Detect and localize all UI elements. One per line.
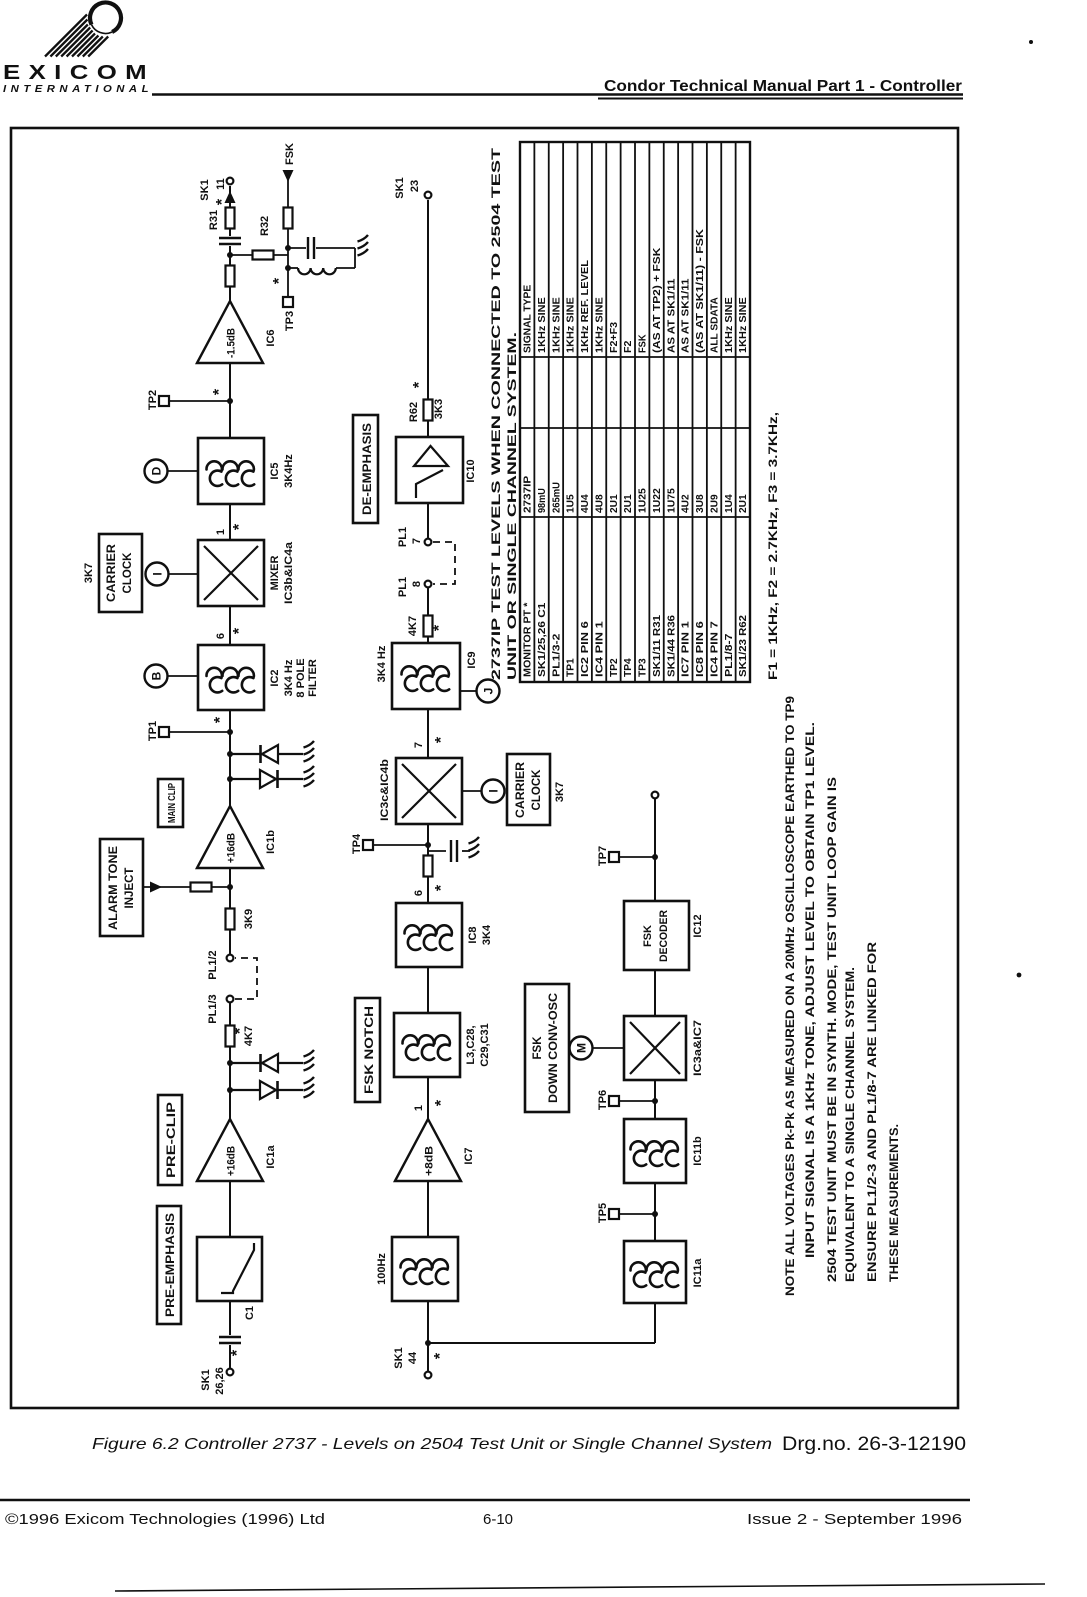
label box PRE-EMPHASIS <box>157 1206 181 1324</box>
clip diode D4 to ground <box>227 741 314 763</box>
svg-text:IC6: IC6 <box>265 329 277 346</box>
svg-text:PL1: PL1 <box>397 527 409 547</box>
node B off-page <box>145 665 168 688</box>
node TP6 junction <box>652 1098 658 1104</box>
header rule <box>152 93 963 96</box>
svg-text:TP6: TP6 <box>597 1090 609 1110</box>
svg-text:2U1: 2U1 <box>622 494 634 513</box>
svg-text:8: 8 <box>411 581 423 587</box>
node TP1 junction <box>227 729 233 735</box>
svg-text:AS AT SK1/11: AS AT SK1/11 <box>680 278 692 353</box>
resistor 4K7 input <box>226 1026 235 1047</box>
node I carrier clock <box>146 563 169 586</box>
test point TP4 <box>351 833 428 854</box>
node I2 carrier clock <box>482 780 505 803</box>
svg-text:INPUT SIGNAL IS A 1KHz TONE, A: INPUT SIGNAL IS A 1KHz TONE, ADJUST LEVE… <box>803 722 817 1258</box>
svg-text:*: * <box>212 716 229 723</box>
svg-text:I: I <box>487 789 501 792</box>
label table title <box>491 148 519 680</box>
svg-text:PL1/8-7: PL1/8-7 <box>723 633 735 677</box>
svg-text:MIXER: MIXER <box>269 556 281 591</box>
node chain2 branch junction <box>425 1340 431 1346</box>
svg-text:+16dB: +16dB <box>226 833 238 863</box>
wire dashed link PL1/8-PL1/7 <box>433 542 455 584</box>
svg-text:TP2: TP2 <box>608 658 620 677</box>
fsk decoder block IC12 <box>624 901 689 970</box>
svg-text:F2+F3: F2+F3 <box>608 322 620 353</box>
svg-text:FSK NOTCH: FSK NOTCH <box>364 1006 376 1094</box>
header title underline <box>598 98 963 100</box>
svg-text:IC2: IC2 <box>269 669 281 686</box>
scan artifact line <box>115 1584 1045 1591</box>
wire chain2 output segment <box>427 200 429 540</box>
node D off-page <box>145 460 168 483</box>
svg-text:-1.5dB: -1.5dB <box>226 328 238 358</box>
svg-text:EQUIVALENT TO A SINGLE CHANNEL: EQUIVALENT TO A SINGLE CHANNEL SYSTEM. <box>843 967 857 1282</box>
svg-text:IC9: IC9 <box>466 651 478 668</box>
wire dashed link PL1/2-PL1/3 <box>235 958 257 999</box>
svg-text:1: 1 <box>413 1105 425 1111</box>
filter IC2 3K4Hz 8-pole <box>198 645 264 710</box>
svg-text:J: J <box>482 688 496 695</box>
svg-text:1KHz SINE: 1KHz SINE <box>593 297 605 353</box>
resistor R31 <box>226 208 235 229</box>
svg-text:TP2: TP2 <box>147 390 159 410</box>
svg-text:2U1: 2U1 <box>737 494 749 513</box>
arrow to SK1/11 <box>225 191 236 203</box>
wire chain2 main segment <box>427 586 429 1371</box>
svg-text:CARRIER: CARRIER <box>515 761 527 818</box>
svg-text:1U4: 1U4 <box>723 494 735 513</box>
svg-text:THESE MEASUREMENTS.: THESE MEASUREMENTS. <box>887 1124 901 1282</box>
svg-text:3K9: 3K9 <box>243 909 255 929</box>
node TP5 junction <box>652 1211 658 1217</box>
svg-text:FSK: FSK <box>637 334 649 353</box>
svg-text:23: 23 <box>409 180 421 192</box>
scan speck right <box>1017 973 1022 978</box>
svg-text:Issue 2 - September 1996: Issue 2 - September 1996 <box>747 1511 962 1528</box>
svg-text:Drg.no. 26-3-12190: Drg.no. 26-3-12190 <box>782 1434 966 1455</box>
svg-text:98mU: 98mU <box>536 488 548 513</box>
svg-text:L3,C28,: L3,C28, <box>465 1025 477 1064</box>
svg-text:2737IP TEST LEVELS WHEN CONNEC: 2737IP TEST LEVELS WHEN CONNECTED TO 250… <box>491 148 503 680</box>
svg-text:3K7: 3K7 <box>83 563 95 583</box>
wire chain1 main segment <box>229 186 231 958</box>
label L3 C28 C29 C31 <box>465 1023 491 1066</box>
svg-text:SK1: SK1 <box>394 177 406 198</box>
svg-text:(AS AT SK1/11) - FSK: (AS AT SK1/11) - FSK <box>694 229 706 353</box>
svg-text:IC11a: IC11a <box>692 1258 704 1288</box>
svg-text:(AS AT TP2) + FSK: (AS AT TP2) + FSK <box>651 247 663 353</box>
wire alarm tone inject branch <box>143 886 230 888</box>
label box PRE-CLIP <box>158 1095 182 1185</box>
svg-text:6: 6 <box>215 633 227 639</box>
test point TP1 <box>147 721 230 741</box>
wire FSK line <box>287 170 289 297</box>
svg-text:ENSURE PL1/2-3 AND PL1/8-7 ARE: ENSURE PL1/2-3 AND PL1/8-7 ARE LINKED FO… <box>865 942 879 1282</box>
node PL1/8 connector <box>425 581 432 588</box>
schematic rotated group <box>83 142 901 1395</box>
svg-text:2U9: 2U9 <box>708 494 720 513</box>
label PL1 8 <box>397 577 423 597</box>
svg-text:*: * <box>433 884 450 891</box>
svg-text:100Hz: 100Hz <box>376 1253 388 1285</box>
wire node M to mixer3 <box>593 1047 624 1049</box>
wire chain3 main segment <box>654 795 656 1343</box>
svg-text:AS AT SK1/11: AS AT SK1/11 <box>665 278 677 353</box>
node PL1/2 connector <box>227 955 234 962</box>
svg-text:IC5: IC5 <box>269 462 281 479</box>
label box MAIN CLIP <box>158 779 183 827</box>
svg-text:1U75: 1U75 <box>665 488 677 513</box>
svg-text:SK1: SK1 <box>393 1347 405 1368</box>
label SK1 44 <box>393 1347 419 1368</box>
filter FSK notch <box>394 1013 460 1077</box>
svg-text:IC3c&IC4b: IC3c&IC4b <box>379 759 391 821</box>
filter IC9 3K4Hz <box>392 643 460 709</box>
label SK1 23 <box>394 177 421 198</box>
filter 100Hz <box>392 1237 458 1301</box>
label box CARRIER CLOCK 1 <box>99 534 142 612</box>
op-amp IC7 +8dB <box>395 1119 461 1181</box>
svg-text:EXICOM: EXICOM <box>3 62 155 84</box>
resistor alarm inject <box>191 883 212 892</box>
svg-text:IC3a&IC7: IC3a&IC7 <box>692 1020 704 1076</box>
pre-emphasis block <box>197 1237 262 1301</box>
svg-text:IC7: IC7 <box>463 1147 475 1164</box>
resistor chain2 series <box>424 856 433 877</box>
op-amp IC6 -1.5dB <box>197 301 263 363</box>
svg-text:SK1: SK1 <box>199 179 211 200</box>
label IC2 filter <box>269 658 319 697</box>
svg-text:4U8: 4U8 <box>593 494 605 513</box>
arrow FSK input <box>283 170 294 182</box>
svg-text:SK1: SK1 <box>200 1369 212 1390</box>
label SK1 11 <box>199 178 227 201</box>
svg-text:TP4: TP4 <box>622 658 634 677</box>
svg-text:*: * <box>433 736 450 743</box>
svg-text:IC12: IC12 <box>692 914 704 937</box>
svg-text:1KHz SINE: 1KHz SINE <box>723 297 735 353</box>
svg-text:PRE-CLIP: PRE-CLIP <box>166 1102 178 1178</box>
svg-text:*: * <box>411 381 428 388</box>
svg-text:B: B <box>150 671 164 680</box>
inductor fsk shunt <box>288 268 355 274</box>
svg-text:PL1/3: PL1/3 <box>207 994 219 1023</box>
svg-text:SK1/44 R36: SK1/44 R36 <box>665 615 677 677</box>
svg-text:IC11b: IC11b <box>692 1136 704 1166</box>
svg-text:IC1b: IC1b <box>265 830 277 854</box>
clip diode D2 to ground <box>227 1050 314 1072</box>
svg-text:FSK: FSK <box>532 1036 544 1060</box>
svg-text:R32: R32 <box>259 216 271 236</box>
test point TP6 <box>597 1090 655 1110</box>
svg-text:4U2: 4U2 <box>680 494 692 513</box>
svg-text:FILTER: FILTER <box>307 659 319 697</box>
svg-text:C1: C1 <box>244 1306 256 1320</box>
wire chain2 to chain3 drop <box>428 1342 655 1344</box>
svg-text:IC4 PIN 7: IC4 PIN 7 <box>708 621 720 677</box>
test point TP2 <box>147 390 230 410</box>
resistor R62 <box>424 400 433 421</box>
de-emphasis block IC10 <box>396 437 463 503</box>
svg-text:SIGNAL TYPE: SIGNAL TYPE <box>522 285 534 353</box>
svg-text:CARRIER: CARRIER <box>106 543 118 602</box>
svg-text:*: * <box>431 624 448 631</box>
svg-text:3U8: 3U8 <box>694 494 706 513</box>
wire node D to IC5 <box>168 470 198 472</box>
svg-text:*: * <box>211 388 228 395</box>
svg-text:PL1: PL1 <box>397 577 409 597</box>
wire IC9 to node J <box>460 690 476 692</box>
svg-text:11: 11 <box>215 178 227 190</box>
resistor R32 shunt <box>230 251 288 260</box>
node alarm inject junction <box>227 884 233 890</box>
svg-text:TP5: TP5 <box>597 1203 609 1223</box>
svg-text:1U22: 1U22 <box>651 488 663 513</box>
mixer IC3a&IC7 <box>624 1016 686 1080</box>
label IC5 filter <box>269 454 295 488</box>
arrow alarm inject <box>150 882 162 893</box>
wire node B to IC2 <box>168 675 198 677</box>
svg-text:265mU: 265mU <box>550 482 562 513</box>
svg-text:TP1: TP1 <box>147 721 159 741</box>
svg-text:SK1/25,26 C1: SK1/25,26 C1 <box>536 602 548 677</box>
op-amp IC1a +16dB <box>197 1119 263 1181</box>
wire mixer to node I2 <box>462 790 481 792</box>
svg-text:3K4 Hz: 3K4 Hz <box>376 645 388 682</box>
svg-text:6-10: 6-10 <box>483 1511 513 1528</box>
filter IC8 3K4 <box>396 903 462 967</box>
wire node I to mixer <box>169 573 198 575</box>
ground TP4 shunt <box>469 837 480 858</box>
resistor after IC6 <box>226 266 235 287</box>
wire fsk shunt join <box>354 248 356 268</box>
node chain3 output terminal <box>652 792 659 799</box>
svg-text:2737IP: 2737IP <box>522 476 534 513</box>
svg-text:MAIN CLIP: MAIN CLIP <box>167 783 178 823</box>
svg-text:+8dB: +8dB <box>424 1146 436 1176</box>
capacitor fsk shunt <box>288 236 355 260</box>
resistor 3K9 <box>226 909 235 930</box>
node TP2 junction <box>227 398 233 404</box>
capacitor output <box>218 236 242 246</box>
svg-text:+16dB: +16dB <box>226 1146 238 1176</box>
label MIXER IC3b&IC4a <box>269 541 295 604</box>
svg-text:*: * <box>231 627 248 634</box>
svg-text:3K3: 3K3 <box>433 399 445 419</box>
svg-text:*: * <box>229 1349 246 1356</box>
svg-text:3K7: 3K7 <box>554 782 566 802</box>
filter IC11a <box>624 1241 686 1303</box>
label PL1 7 <box>397 527 423 547</box>
svg-text:*: * <box>433 1099 450 1106</box>
svg-text:M: M <box>575 1043 589 1053</box>
EXICOM logo comet <box>45 2 121 56</box>
label IC8 filter <box>467 924 493 945</box>
svg-text:4U4: 4U4 <box>579 494 591 513</box>
node R32 junction <box>227 252 233 258</box>
svg-text:TP1: TP1 <box>565 658 577 677</box>
svg-text:FSK: FSK <box>642 925 654 947</box>
svg-text:SK1/11 R31: SK1/11 R31 <box>651 615 663 677</box>
mixer IC3c&IC4b <box>396 758 462 824</box>
node SK1/44 input terminal <box>425 1372 432 1379</box>
capacitor TP4 shunt <box>428 839 470 863</box>
ground fsk network <box>358 235 369 256</box>
svg-text:C29,C31: C29,C31 <box>479 1023 491 1066</box>
svg-text:TP3: TP3 <box>637 658 649 677</box>
label box FSK NOTCH <box>355 998 380 1102</box>
node SK1/26 input terminal <box>227 1369 234 1376</box>
clip diode D3 to ground <box>227 766 314 788</box>
svg-text:IC10: IC10 <box>465 459 477 482</box>
node SK1/23 output terminal <box>425 192 432 199</box>
svg-text:PL1/3-2: PL1/3-2 <box>550 633 562 677</box>
wire chain1 input segment <box>229 999 231 1368</box>
svg-text:8 POLE: 8 POLE <box>295 658 307 697</box>
svg-text:DECODER: DECODER <box>658 910 670 962</box>
svg-text:MONITOR PT *: MONITOR PT * <box>522 602 534 677</box>
capacitor C1 <box>218 1335 242 1345</box>
label SK1 26,26 <box>200 1367 226 1395</box>
svg-text:CLOCK: CLOCK <box>531 769 543 811</box>
svg-text:R31: R31 <box>208 210 220 230</box>
filter IC11b <box>624 1119 686 1183</box>
svg-text:*: * <box>231 523 248 530</box>
svg-text:1U25: 1U25 <box>637 488 649 513</box>
svg-text:3K4 Hz: 3K4 Hz <box>283 659 295 696</box>
node A fsk junction <box>285 245 291 251</box>
svg-text:INTERNATIONAL: INTERNATIONAL <box>3 84 153 95</box>
svg-text:1KHz SINE: 1KHz SINE <box>737 297 749 353</box>
svg-text:IC1a: IC1a <box>265 1145 277 1169</box>
svg-text:44: 44 <box>407 1351 419 1364</box>
svg-text:TP3: TP3 <box>284 311 296 331</box>
node J off-page <box>477 680 500 703</box>
svg-text:ALL SDATA: ALL SDATA <box>708 297 720 353</box>
svg-text:NOTE ALL VOLTAGES Pk-Pk AS MEA: NOTE ALL VOLTAGES Pk-Pk AS MEASURED ON A… <box>783 696 797 1296</box>
svg-text:PRE-EMPHASIS: PRE-EMPHASIS <box>165 1213 177 1317</box>
svg-text:FSK: FSK <box>284 143 296 165</box>
svg-text:TP7: TP7 <box>597 846 609 866</box>
svg-text:3K4Hz: 3K4Hz <box>283 454 295 488</box>
svg-text:IC8 PIN 6: IC8 PIN 6 <box>694 621 706 677</box>
svg-text:2U1: 2U1 <box>608 494 620 513</box>
node PL1/3 connector <box>227 996 234 1003</box>
svg-text:IC7 PIN 1: IC7 PIN 1 <box>680 621 692 677</box>
svg-text:Figure 6.2 Controller 2737 -: Figure 6.2 Controller 2737 - Levels on 2… <box>92 1436 772 1453</box>
svg-text:IC4 PIN 1: IC4 PIN 1 <box>593 621 605 677</box>
svg-text:ALARM TONE: ALARM TONE <box>108 846 120 930</box>
node PL1/7 connector <box>425 539 432 546</box>
filter IC5 3K4Hz <box>198 438 264 504</box>
svg-text:DE-EMPHASIS: DE-EMPHASIS <box>362 423 374 515</box>
svg-text:TP4: TP4 <box>351 833 363 854</box>
resistor FSK <box>284 208 293 229</box>
svg-text:*: * <box>271 277 288 284</box>
test point TP7 <box>597 846 655 866</box>
svg-text:1: 1 <box>215 529 227 535</box>
svg-text:INJECT: INJECT <box>124 868 136 909</box>
svg-text:*: * <box>432 1352 449 1359</box>
clip diode D1 to ground <box>227 1077 314 1099</box>
table 2737IP test levels <box>520 142 750 682</box>
op-amp IC1b +16dB <box>197 806 263 868</box>
node TP4 junction <box>425 842 431 848</box>
svg-text:IC8: IC8 <box>467 926 479 943</box>
svg-text:©1996 Exicom Technologies (199: ©1996 Exicom Technologies (1996) Ltd <box>5 1511 325 1528</box>
label box FSK DOWN CONV-OSC <box>525 984 569 1112</box>
svg-text:1KHz REF. LEVEL: 1KHz REF. LEVEL <box>579 259 591 353</box>
svg-text:PL1/2: PL1/2 <box>207 950 219 979</box>
svg-text:R62: R62 <box>408 402 420 422</box>
svg-text:Condor Technical Manual Part 1: Condor Technical Manual Part 1 - Control… <box>604 78 962 95</box>
svg-text:7: 7 <box>413 742 425 748</box>
test point TP3 <box>283 297 296 331</box>
svg-text:1U5: 1U5 <box>565 494 577 513</box>
svg-text:SK1/23 R62: SK1/23 R62 <box>737 615 749 677</box>
diagram border <box>11 128 958 1408</box>
svg-text:IC2 PIN 6: IC2 PIN 6 <box>579 621 591 677</box>
label box CARRIER CLOCK 2 <box>507 754 550 825</box>
svg-text:1KHz SINE: 1KHz SINE <box>536 297 548 353</box>
mixer IC3b&IC4a <box>198 540 264 606</box>
node B2 fsk junction <box>285 265 291 271</box>
node M down-conv osc <box>570 1037 593 1060</box>
svg-text:7: 7 <box>411 538 423 544</box>
node SK1/11 output terminal <box>227 178 234 185</box>
footer rule <box>0 1499 970 1502</box>
label box DE-EMPHASIS <box>353 415 378 523</box>
svg-text:F2: F2 <box>622 340 634 353</box>
node TP7 junction <box>652 854 658 860</box>
svg-text:DOWN CONV-OSC: DOWN CONV-OSC <box>548 993 560 1103</box>
resistor 4K7 chain2 <box>424 616 433 637</box>
svg-text:4K7: 4K7 <box>407 616 419 636</box>
svg-text:1KHz SINE: 1KHz SINE <box>565 297 577 353</box>
svg-text:F1 = 1KHz, F2 = 2.7KHz, F3 = 3: F1 = 1KHz, F2 = 2.7KHz, F3 = 3.7KHz, <box>768 412 780 680</box>
svg-text:I: I <box>151 572 165 575</box>
svg-text:6: 6 <box>413 890 425 896</box>
svg-text:CLOCK: CLOCK <box>122 552 134 594</box>
svg-text:26,26: 26,26 <box>214 1367 226 1395</box>
svg-text:IC3b&IC4a: IC3b&IC4a <box>283 541 295 604</box>
svg-text:UNIT OR SINGLE CHANNEL SYSTEM.: UNIT OR SINGLE CHANNEL SYSTEM. <box>507 332 519 680</box>
svg-text:3K4: 3K4 <box>481 924 493 945</box>
svg-text:D: D <box>150 466 164 475</box>
label box ALARM TONE INJECT <box>100 839 143 936</box>
note text block <box>783 696 901 1296</box>
scan speck top right <box>1029 40 1033 44</box>
test point TP5 <box>597 1203 655 1223</box>
svg-text:1KHz SINE: 1KHz SINE <box>550 297 562 353</box>
svg-text:*: * <box>232 1027 249 1034</box>
svg-text:2504 TEST UNIT MUST BE IN SYNT: 2504 TEST UNIT MUST BE IN SYNTH. MODE, T… <box>825 777 839 1282</box>
